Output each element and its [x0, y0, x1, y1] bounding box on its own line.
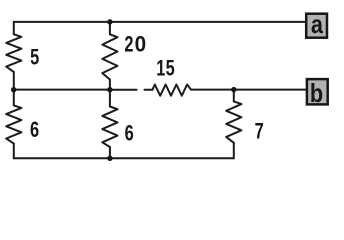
junction right rail to b wire [231, 87, 236, 92]
resistor 6 ohm (middle lower) [102, 107, 117, 148]
svg-text:6: 6 [30, 119, 39, 143]
svg-text:1: 1 [156, 57, 165, 81]
resistor 20 ohm (middle upper) [102, 34, 117, 79]
resistor 6 ohm (left lower) [6, 105, 21, 143]
wire top (node a rail) [14, 21, 305, 23]
svg-text:5: 5 [30, 46, 39, 70]
svg-text:7: 7 [255, 120, 264, 144]
svg-text:6: 6 [125, 122, 134, 146]
wire middle rail center [109, 80, 111, 107]
junction middle rail mid node [107, 87, 112, 92]
wire bottom [14, 157, 234, 159]
wire mid-left (left rail to middle rail) [14, 89, 110, 91]
svg-text:2: 2 [124, 33, 133, 57]
wire right rail bottom lead [233, 143, 235, 159]
wire middle rail top lead [109, 22, 111, 35]
junction top (middle rail to top wire) [107, 19, 112, 24]
resistor 15 ohm (horizontal) [153, 85, 192, 96]
junction middle rail bottom [107, 156, 112, 161]
wire mid-right broken segment [110, 89, 137, 91]
wire left rail upper lead [13, 22, 15, 34]
svg-text:b: b [310, 80, 323, 108]
wire right rail top lead [233, 90, 235, 102]
wire left rail bottom lead [13, 144, 15, 159]
svg-text:a: a [311, 11, 324, 39]
junction left rail mid node [11, 87, 16, 92]
svg-text:0: 0 [135, 32, 147, 57]
wire left rail middle [13, 72, 15, 105]
svg-text:5: 5 [166, 57, 175, 81]
wire middle rail bottom lead [109, 147, 111, 158]
resistor 7 ohm (right) [226, 101, 241, 142]
terminal b box [307, 79, 328, 108]
terminal a box [306, 11, 327, 39]
resistor 5 ohm (left upper) [6, 34, 21, 72]
wire to terminal b [191, 89, 306, 91]
wire dash before resistor 15 [145, 89, 153, 91]
